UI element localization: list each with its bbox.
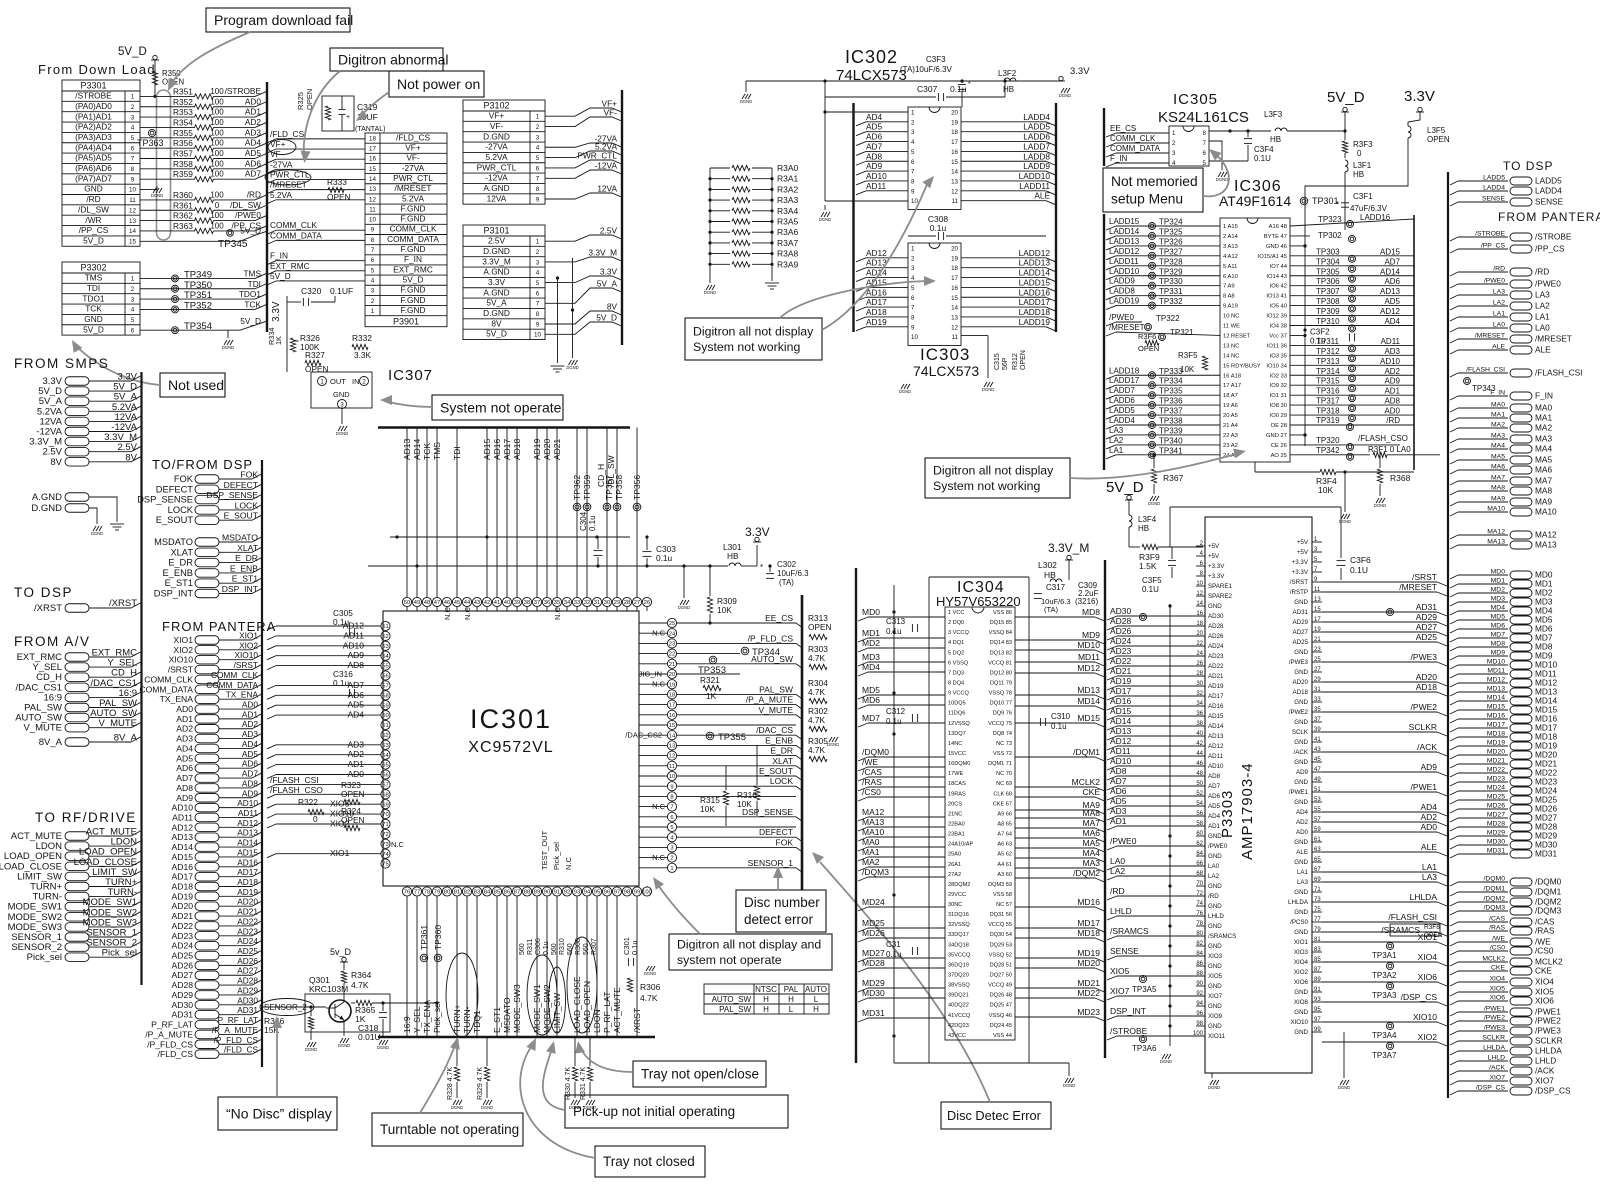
grey arrow disc-detec -> FOK bus: [820, 862, 990, 1102]
svg-text:TCK: TCK: [422, 443, 432, 460]
svg-text:TDI: TDI: [452, 446, 462, 460]
ellipse highlight SENSOR_2: [260, 999, 314, 1016]
resistor R352 100 -> AD0: [140, 106, 195, 108]
test point TP3A5: [1139, 975, 1146, 982]
svg-text:C320: C320: [301, 286, 322, 296]
svg-text:F.GND: F.GND: [401, 305, 426, 315]
IC IC306 body: [1220, 218, 1290, 462]
svg-text:28DQM2: 28DQM2: [948, 882, 970, 888]
wire /PWE2 (P3303 to right bus): [1322, 711, 1437, 713]
wire AD5 / test point TP308: [1290, 305, 1414, 307]
svg-text:R327: R327: [305, 350, 325, 360]
svg-text:13: 13: [951, 178, 958, 185]
svg-text:7: 7: [1203, 140, 1207, 147]
svg-text:MA9: MA9: [1491, 496, 1505, 503]
svg-text:36DQ19: 36DQ19: [948, 962, 969, 968]
svg-text:VSSQ 46: VSSQ 46: [989, 1013, 1012, 1019]
svg-text:MD26: MD26: [862, 928, 885, 938]
svg-text:91: 91: [1314, 987, 1321, 993]
svg-text:XIO5: XIO5: [1490, 986, 1506, 993]
ground (IC307): [338, 426, 341, 431]
svg-text:/FLD_CS: /FLD_CS: [396, 132, 431, 142]
wire IC301 pin 20: [677, 673, 740, 675]
svg-text:88: 88: [524, 890, 530, 896]
wire AD26 (to P3303 left): [1107, 636, 1117, 640]
svg-text:Pick-up not initial operating: Pick-up not initial operating: [573, 1104, 735, 1119]
svg-text:XIO2: XIO2: [239, 640, 258, 650]
svg-text:5V_D: 5V_D: [1106, 479, 1144, 496]
svg-text:TP328: TP328: [1159, 257, 1183, 266]
wire IC301 bottom pin TURN+: [456, 896, 458, 1037]
wire LADD7 (latch right): [961, 150, 1046, 152]
resistor R368: [1379, 452, 1381, 468]
svg-text:96: 96: [1196, 1011, 1203, 1017]
svg-text:AD24: AD24: [237, 936, 258, 946]
svg-text:HB: HB: [727, 551, 739, 561]
svg-text:TP333: TP333: [1159, 367, 1183, 376]
svg-text:/WE: /WE: [862, 757, 878, 767]
svg-text:LA3: LA3: [1535, 290, 1550, 300]
svg-text:TP306: TP306: [1316, 277, 1340, 286]
svg-text:EXT_RMC: EXT_RMC: [393, 264, 433, 274]
svg-text:TP3A5: TP3A5: [1132, 985, 1157, 994]
svg-text:LADD4: LADD4: [1109, 416, 1135, 425]
wire IC301 pin 17 /P_A_MUTE: [677, 704, 796, 706]
svg-text:AD7: AD7: [347, 680, 364, 690]
svg-text:DQ14 83: DQ14 83: [990, 640, 1012, 646]
svg-text:94: 94: [1196, 1001, 1203, 1007]
connector pin MA7 (far right): [1450, 481, 1458, 485]
grey arrow digitron-top -> IC302: [822, 182, 928, 330]
svg-text:LA2: LA2: [1493, 300, 1505, 307]
resistor R3A7: [710, 242, 730, 244]
svg-text:MD24: MD24: [1487, 785, 1505, 792]
svg-text:Pick_sel: Pick_sel: [432, 1001, 442, 1033]
svg-text:AD12: AD12: [1380, 307, 1401, 316]
wire MD8 (IC304 to P3303 bus): [1015, 616, 1095, 618]
svg-text:MD30: MD30: [1487, 839, 1505, 846]
svg-text:MD11: MD11: [1078, 652, 1100, 662]
connector pin MA13 (far right): [1450, 545, 1458, 549]
svg-text:MD31: MD31: [1535, 849, 1558, 859]
IC301 left pins 51..75: [381, 621, 390, 630]
wire IC301 top pin x=617 /DL_SW: [616, 428, 618, 598]
connector pin MD21 (far right): [1450, 764, 1458, 768]
svg-text:GND: GND: [1294, 599, 1308, 606]
svg-text:20 A5: 20 A5: [1223, 413, 1238, 419]
svg-text:18: 18: [951, 265, 958, 272]
svg-text:AD14: AD14: [412, 438, 422, 460]
svg-text:(PA7)AD7: (PA7)AD7: [75, 173, 112, 183]
svg-text:FOK: FOK: [776, 837, 794, 847]
svg-text:(TA): (TA): [1044, 605, 1059, 614]
svg-text:6: 6: [371, 257, 375, 264]
svg-text:58: 58: [1196, 821, 1203, 827]
svg-text:FROM A/V: FROM A/V: [14, 634, 91, 649]
svg-text:VSS 86: VSS 86: [993, 610, 1012, 616]
svg-text:AD20: AD20: [1293, 679, 1309, 686]
svg-text:SENSOR_1: SENSOR_1: [748, 858, 794, 868]
svg-text:R360: R360: [173, 190, 193, 200]
connector pin MD22 (far right): [1450, 773, 1458, 777]
svg-text:MA5: MA5: [1535, 455, 1552, 465]
svg-text:100: 100: [1193, 1031, 1204, 1037]
svg-text:11 WE: 11 WE: [1223, 324, 1240, 330]
svg-text:GND: GND: [1294, 779, 1308, 786]
connector pin /CS0 (far right): [1450, 951, 1458, 955]
wire AD21 (to P3303 left): [1107, 676, 1117, 680]
svg-text:/RD: /RD: [1535, 267, 1549, 277]
svg-text:23: 23: [1314, 647, 1321, 653]
wire IC301 top pin x=587: [586, 428, 588, 598]
svg-text:C3F5: C3F5: [1142, 576, 1162, 585]
wire IC301 bottom pin ACT_MUTE: [616, 896, 618, 1037]
callout Not power on: [389, 71, 484, 97]
bus (P3303 left bus): [1104, 560, 1106, 1058]
svg-text:AT49F1614: AT49F1614: [1219, 193, 1291, 209]
svg-text:DGND: DGND: [982, 387, 994, 392]
svg-text:2: 2: [911, 119, 915, 126]
svg-text:AD6: AD6: [1208, 793, 1221, 800]
svg-text:/PWE3: /PWE3: [1535, 1026, 1561, 1036]
svg-text:AD2: AD2: [176, 724, 193, 734]
svg-text:DQM3 59: DQM3 59: [988, 882, 1012, 888]
svg-text:43: 43: [1314, 747, 1321, 753]
test point TP349 wire TMS: [140, 277, 255, 279]
svg-text:AD7: AD7: [176, 773, 193, 783]
wire AD14 (to P3303 left): [1107, 726, 1117, 730]
wire AD6 (latch left): [856, 142, 866, 146]
svg-text:GND: GND: [1294, 1029, 1308, 1036]
svg-text:TP308: TP308: [1316, 297, 1340, 306]
wire MD4 (MD bus to IC304): [858, 672, 868, 676]
wire IC301 pin 64 AD2: [267, 755, 276, 759]
wire AD9 (P3303 to right bus): [1322, 771, 1437, 773]
svg-text:33: 33: [574, 600, 580, 606]
wire LHLDA (P3303 to right bus): [1322, 901, 1437, 903]
svg-text:0.1u: 0.1u: [543, 941, 550, 955]
svg-text:8V: 8V: [125, 452, 137, 463]
svg-text:F.GND: F.GND: [401, 214, 426, 224]
connector pin MA8 (far right): [1450, 491, 1458, 495]
test point TP3A1: [1386, 942, 1393, 949]
svg-text:-12VA: -12VA: [595, 161, 618, 171]
connector pin LA3 (far right): [1450, 295, 1458, 299]
wire AD12 (latch left): [856, 258, 866, 262]
svg-text:79: 79: [1314, 927, 1321, 933]
connector pin ALE (far right): [1450, 350, 1458, 354]
connector pin MCLK2 (far right): [1450, 962, 1458, 966]
svg-text:(TANTAL): (TANTAL): [355, 126, 385, 133]
svg-text:TP361: TP361: [419, 925, 429, 950]
svg-text:AD26: AD26: [1208, 633, 1224, 640]
svg-text:/SRST: /SRST: [1412, 572, 1437, 582]
wire AD16 (to P3303 left): [1107, 706, 1117, 710]
svg-text:/RAS: /RAS: [1489, 925, 1505, 932]
svg-text:GND: GND: [1208, 903, 1222, 910]
svg-text:MD2: MD2: [862, 638, 880, 648]
connector pin /PWE1 (far right): [1450, 1012, 1458, 1016]
grey arrow tray-not-closed -> MODE_SW: [520, 1043, 595, 1158]
wire CE row test point TP320 /FLASH_CSO: [1290, 444, 1400, 446]
svg-text:C312: C312: [886, 707, 906, 716]
svg-text:/PWE0: /PWE0: [1208, 843, 1228, 850]
svg-text:SPARE1: SPARE1: [1208, 583, 1233, 590]
wire IC301 pin 1 SENSOR_1: [677, 867, 796, 869]
svg-text:6 VSSQ: 6 VSSQ: [948, 660, 969, 666]
svg-text:AD6: AD6: [1384, 277, 1400, 286]
svg-text:3: 3: [536, 259, 540, 266]
power 3.3V (IC302 rail): [1048, 80, 1061, 82]
svg-text:/PWE2: /PWE2: [1535, 1016, 1561, 1026]
svg-text:SCLKR: SCLKR: [1535, 1036, 1563, 1046]
svg-text:15: 15: [669, 723, 675, 729]
svg-text:E_ST1: E_ST1: [232, 574, 258, 584]
wire IC301 top pin x=427 TCK: [426, 428, 428, 598]
svg-text:OUT: OUT: [330, 377, 346, 386]
svg-text:69: 69: [382, 802, 388, 808]
svg-text:-27VA: -27VA: [402, 163, 425, 173]
svg-text:AD24: AD24: [172, 941, 194, 951]
wire MD15 (IC304 to P3303 bus): [1015, 722, 1095, 724]
wire AD20 (P3303 to right bus): [1322, 681, 1437, 683]
wire AD14 / test point TP305: [1290, 275, 1414, 277]
svg-text:/DQM1: /DQM1: [1073, 747, 1100, 757]
svg-text:Not power on: Not power on: [397, 76, 480, 92]
connector P3102: [463, 100, 545, 204]
connector pin MA2 (far right): [1450, 428, 1458, 432]
svg-text:TCK: TCK: [85, 304, 102, 314]
svg-text:LA0: LA0: [1493, 322, 1505, 329]
svg-text:81: 81: [1314, 937, 1321, 943]
svg-text:56P: 56P: [1002, 357, 1009, 370]
svg-text:4.7K: 4.7K: [808, 715, 826, 725]
svg-text:E_DR: E_DR: [770, 746, 793, 756]
capacitor C310 0.1u: [1039, 718, 1041, 726]
svg-text:NC 57: NC 57: [996, 902, 1012, 908]
test point (AD31): [1386, 608, 1393, 615]
wire AD25 (P3303 to right bus): [1322, 641, 1437, 643]
svg-text:MA0: MA0: [1491, 402, 1505, 409]
svg-text:/ACK: /ACK: [1489, 1065, 1505, 1072]
svg-text:TO RF/DRIVE: TO RF/DRIVE: [35, 810, 137, 825]
svg-text:XIO2: XIO2: [173, 645, 193, 655]
svg-text:4.7K: 4.7K: [808, 653, 826, 663]
svg-text:TO/FROM DSP: TO/FROM DSP: [152, 457, 253, 472]
grey arrow digitron-bottom -> IC301: [656, 882, 700, 934]
svg-text:13 NC: 13 NC: [1223, 343, 1239, 349]
svg-text:OPEN: OPEN: [341, 815, 365, 825]
wire LADD6 / test point TP336: [1106, 405, 1116, 409]
wire IC301 bottom pin MSDATO: [506, 896, 508, 1037]
svg-text:61: 61: [382, 723, 388, 729]
svg-text:MD24: MD24: [862, 897, 885, 907]
svg-text:/PWE0: /PWE0: [1484, 278, 1505, 285]
svg-text:FROM PANTERA: FROM PANTERA: [1498, 210, 1600, 224]
svg-text:3.3V_M: 3.3V_M: [588, 248, 617, 258]
svg-text:C3F1: C3F1: [1353, 192, 1373, 201]
wire 5.2VA (bus to P3901): [267, 200, 276, 204]
svg-text:41: 41: [1314, 737, 1321, 743]
svg-text:AD18: AD18: [237, 877, 258, 887]
svg-text:8V: 8V: [607, 302, 618, 312]
svg-text:9: 9: [536, 321, 540, 328]
svg-text:3 A13: 3 A13: [1223, 244, 1238, 250]
svg-text:E_ENB: E_ENB: [163, 568, 194, 578]
svg-text:4: 4: [670, 835, 674, 841]
svg-text:5: 5: [131, 135, 135, 142]
svg-text:+5V: +5V: [1208, 543, 1220, 550]
svg-text:19: 19: [669, 682, 675, 688]
svg-text:E_DR: E_DR: [168, 558, 193, 568]
svg-text:4: 4: [371, 277, 375, 284]
wire IC301 pin 3 FOK: [677, 846, 796, 848]
svg-text:MD4: MD4: [862, 662, 880, 672]
IC IC301 XC9572VL body: [383, 611, 639, 886]
svg-text:74: 74: [382, 852, 389, 858]
svg-text:100: 100: [210, 159, 224, 168]
svg-text:IO7 44: IO7 44: [1270, 264, 1288, 270]
svg-text:E_ST1: E_ST1: [165, 578, 193, 588]
wire AD6 (to P3303 left): [1107, 796, 1117, 800]
svg-text:CKE 67: CKE 67: [993, 801, 1012, 807]
wire MD1 (MD bus to IC304): [858, 638, 868, 642]
svg-text:TX_ENA: TX_ENA: [226, 690, 259, 700]
svg-text:AD21: AD21: [552, 438, 562, 460]
svg-text:GND: GND: [1208, 943, 1222, 950]
svg-text:0.1u: 0.1u: [588, 515, 597, 531]
svg-text:SENSE: SENSE: [1482, 196, 1506, 203]
svg-text:SPARE2: SPARE2: [1208, 593, 1233, 600]
ground (P3101 A.GND earth): [557, 278, 559, 363]
svg-text:AD4: AD4: [866, 112, 883, 122]
svg-text:E_DR: E_DR: [235, 553, 258, 563]
wire LADD15 (latch right): [961, 286, 1046, 288]
svg-text:AD29: AD29: [1416, 612, 1438, 622]
test point TP302: [1290, 235, 1310, 237]
svg-text:DGND: DGND: [1063, 1083, 1075, 1088]
svg-text:33: 33: [1314, 697, 1321, 703]
svg-text:42: 42: [1196, 741, 1203, 747]
svg-text:GND: GND: [84, 184, 102, 194]
svg-text:R3F3: R3F3: [1353, 140, 1373, 149]
svg-text:GND: GND: [1294, 739, 1308, 746]
wire /FLASH_CSI (P3303 to right bus): [1322, 921, 1437, 923]
wire IC301 pin 63 AD3: [267, 745, 276, 749]
svg-text:F_IN: F_IN: [270, 251, 288, 261]
svg-text:TP357: TP357: [604, 475, 614, 500]
svg-text:100: 100: [210, 190, 224, 199]
wire /SRAMCS (to P3303 left): [1107, 936, 1117, 940]
svg-text:36: 36: [1196, 711, 1203, 717]
svg-text:+5V: +5V: [1297, 539, 1309, 546]
connector pin MA10 (far right): [1450, 512, 1458, 516]
svg-text:3.3V_M: 3.3V_M: [1048, 541, 1089, 555]
svg-text:11DQ6: 11DQ6: [948, 711, 965, 717]
resistor R362 100 -> /PWE0: [140, 220, 195, 222]
svg-text:5V_D: 5V_D: [240, 316, 261, 326]
svg-text:ACT_MUTE: ACT_MUTE: [612, 987, 622, 1033]
svg-text:5 A11: 5 A11: [1223, 264, 1237, 270]
svg-text:EXT_RMC: EXT_RMC: [270, 261, 310, 271]
wire /DQM1 (IC304 to P3303 bus): [1015, 756, 1095, 758]
svg-text:LHLDA: LHLDA: [1410, 892, 1438, 902]
svg-text:OPEN: OPEN: [1020, 350, 1027, 370]
wire AD18 (P3303 to right bus): [1322, 691, 1437, 693]
svg-text:20: 20: [669, 672, 675, 678]
svg-text:LA0: LA0: [1110, 856, 1125, 866]
svg-text:GND: GND: [1208, 853, 1222, 860]
svg-text:MA13: MA13: [1535, 540, 1557, 550]
svg-text:AD10: AD10: [866, 171, 887, 181]
wire IC301 bottom pin TDQ1: [476, 896, 478, 1037]
svg-text:DGND: DGND: [566, 365, 578, 370]
svg-text:R361: R361: [173, 200, 193, 210]
svg-text:AD10: AD10: [172, 803, 194, 813]
svg-text:MD3: MD3: [862, 652, 880, 662]
svg-text:AD0: AD0: [1296, 829, 1309, 836]
svg-text:AD3: AD3: [176, 734, 193, 744]
svg-text:AD11: AD11: [172, 812, 193, 822]
svg-text:GND: GND: [84, 314, 102, 324]
svg-text:1: 1: [371, 308, 375, 315]
svg-text:“No Disc” display: “No Disc” display: [226, 1105, 332, 1121]
svg-text:TP326: TP326: [1159, 237, 1183, 246]
svg-text:CKE: CKE: [1083, 787, 1101, 797]
svg-text:AD23: AD23: [237, 926, 258, 936]
svg-text:AD12: AD12: [1110, 736, 1132, 746]
wire AD2 / test point TP314: [1290, 374, 1414, 376]
svg-text:5: 5: [536, 155, 540, 162]
svg-text:TP305: TP305: [1316, 267, 1340, 276]
wire MD29 (MD bus to IC304): [858, 988, 868, 992]
svg-text:/STROBE: /STROBE: [225, 86, 262, 96]
wire AD17 (to P3303 left): [1107, 696, 1117, 700]
wire MD30 (MD bus to IC304): [858, 998, 868, 1002]
svg-text:AD6: AD6: [242, 759, 259, 769]
callout Digitron all not display / System not working (right): [925, 458, 1070, 498]
svg-text:(3216): (3216): [1075, 597, 1098, 606]
svg-text:/PWE1: /PWE1: [1289, 789, 1309, 796]
wire VF- (bus to P3901): [267, 159, 276, 163]
svg-text:IO11 36: IO11 36: [1267, 343, 1287, 349]
IC301 top pins 50..26: [402, 597, 411, 606]
wire AO row test point TP342 R3F1 0 LA0: [1290, 454, 1370, 456]
svg-text:AD3: AD3: [1110, 806, 1127, 816]
svg-text:43VCC: 43VCC: [948, 1033, 966, 1039]
wire IC301 pin 58 AD6: [267, 695, 276, 699]
svg-text:/CAS: /CAS: [862, 767, 882, 777]
connector pin /PWE2 (far right): [1450, 1021, 1458, 1025]
svg-text:12: 12: [669, 754, 675, 760]
svg-text:3.3V: 3.3V: [600, 267, 618, 277]
svg-text:40: 40: [1196, 731, 1203, 737]
svg-text:DGND: DGND: [678, 605, 690, 610]
svg-text:70: 70: [382, 812, 388, 818]
svg-text:Digitron abnormal: Digitron abnormal: [338, 51, 449, 67]
svg-text:TP307: TP307: [1316, 287, 1340, 296]
svg-text:LADD15: LADD15: [1019, 277, 1051, 287]
svg-text:LADD11: LADD11: [1019, 181, 1050, 191]
svg-text:2 A14: 2 A14: [1223, 234, 1239, 240]
bus (AD/LADD16 bus right of IC306): [1413, 215, 1415, 470]
svg-text:DGND: DGND: [644, 971, 656, 976]
svg-text:DGND: DGND: [336, 431, 348, 436]
svg-text:6: 6: [131, 145, 135, 152]
svg-text:AD17: AD17: [1208, 693, 1224, 700]
connector pin CKE (far right): [1450, 971, 1458, 975]
svg-text:LA2: LA2: [1110, 866, 1125, 876]
